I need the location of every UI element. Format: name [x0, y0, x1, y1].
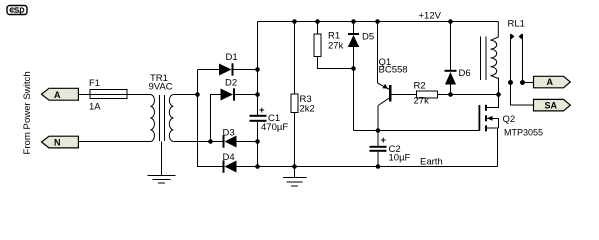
port N (mains neutral input) — [42, 136, 79, 148]
diode D5 — [348, 22, 374, 131]
relay contact 2 — [519, 34, 534, 86]
port SA (switched output) — [534, 99, 571, 111]
node D4 anode / earth — [255, 164, 260, 169]
svg-text:D1: D1 — [226, 52, 238, 63]
svg-text:Earth: Earth — [420, 157, 443, 168]
ESP logo — [7, 6, 27, 15]
svg-text:SA: SA — [545, 100, 558, 110]
svg-text:+: + — [259, 105, 265, 116]
svg-text:1A: 1A — [89, 102, 101, 113]
node R1/D5 junction — [351, 66, 356, 71]
fuse F1 1A — [89, 78, 127, 113]
body arrow — [487, 117, 499, 119]
diode D3 — [223, 128, 258, 148]
node D6 anode / R2 — [448, 92, 453, 97]
node AC2 junction — [208, 139, 213, 144]
+12V rail — [258, 21, 499, 23]
node coil bottom / drain — [496, 92, 501, 97]
relay core — [480, 37, 482, 81]
source lead — [487, 127, 499, 129]
svg-text:D2: D2 — [225, 78, 237, 89]
svg-text:A: A — [547, 77, 554, 87]
drain lead — [487, 95, 499, 108]
svg-text:D5: D5 — [362, 32, 374, 43]
node R3 bottom / ground — [292, 164, 297, 169]
svg-text:F1: F1 — [89, 78, 100, 89]
svg-text:From Power Switch: From Power Switch — [22, 71, 33, 154]
node Q1 emitter top — [375, 19, 380, 24]
gate bar — [479, 105, 481, 131]
port A (mains active input) — [42, 88, 79, 100]
primary winding — [151, 95, 155, 142]
diode D2 — [221, 78, 258, 101]
capacitor C2 10uF — [370, 131, 411, 167]
svg-text:+12V: +12V — [419, 11, 442, 22]
diode D6 — [445, 22, 471, 95]
wire AC2 vertical — [211, 95, 221, 142]
svg-text:RL1: RL1 — [508, 19, 525, 30]
node R1 top — [315, 19, 320, 24]
wire bridge + vertical — [257, 22, 259, 116]
node D3 anode — [255, 139, 260, 144]
node D2 cathode / C1 — [255, 92, 260, 97]
node D6 top — [448, 19, 453, 24]
secondary winding — [169, 95, 173, 142]
node D5 top — [351, 19, 356, 24]
wire secondary bottom to D3 — [173, 141, 222, 143]
transistor Q1 BC558 — [378, 22, 417, 131]
resistor R3 2k2 — [291, 22, 315, 167]
wire gate node — [354, 130, 480, 132]
node gate / C2 / collector — [376, 128, 381, 133]
svg-text:470µF: 470µF — [261, 122, 288, 133]
ground (transformer shield) — [148, 142, 176, 184]
svg-text:Q2: Q2 — [503, 114, 516, 125]
svg-text:2k2: 2k2 — [300, 104, 315, 115]
node R3 top — [292, 19, 297, 24]
wire AC1 vertical — [198, 70, 223, 167]
wire secondary top to AC1 — [173, 94, 197, 96]
node D1 cathode — [255, 67, 260, 72]
wire N to TR1 primary bottom — [78, 141, 150, 143]
transformer TR1 9VAC — [149, 73, 174, 142]
svg-text:27k: 27k — [414, 96, 430, 107]
wire F1 to TR1 primary — [127, 94, 151, 96]
relay contact 1 — [508, 34, 534, 106]
svg-text:N: N — [54, 138, 61, 148]
svg-text:9VAC: 9VAC — [149, 82, 173, 93]
relay RL1 coil — [481, 19, 525, 95]
svg-text:BC558: BC558 — [379, 65, 408, 76]
resistor R2 27k — [414, 81, 499, 107]
diode D4 — [223, 152, 258, 173]
transistor Q2 MTP3055 (MOSFET) — [479, 95, 544, 167]
node C2 bottom — [376, 164, 381, 169]
diode D1 — [198, 52, 258, 76]
node AC1 junction — [195, 92, 200, 97]
wire A to F1 — [78, 94, 90, 96]
svg-text:10µF: 10µF — [389, 153, 411, 164]
svg-text:A: A — [54, 90, 61, 100]
core — [159, 95, 161, 141]
resistor R1 27k — [314, 22, 354, 69]
ground (main earth) — [283, 167, 307, 186]
svg-text:27k: 27k — [328, 41, 344, 52]
svg-text:MTP3055: MTP3055 — [504, 128, 543, 138]
svg-text:+: + — [381, 135, 387, 146]
port A (switched output) — [534, 76, 571, 88]
earth bus wire — [258, 166, 498, 168]
svg-text:R2: R2 — [414, 81, 426, 92]
svg-text:D6: D6 — [459, 68, 471, 79]
channel segments — [485, 105, 487, 111]
capacitor C1 470uF — [250, 105, 289, 133]
